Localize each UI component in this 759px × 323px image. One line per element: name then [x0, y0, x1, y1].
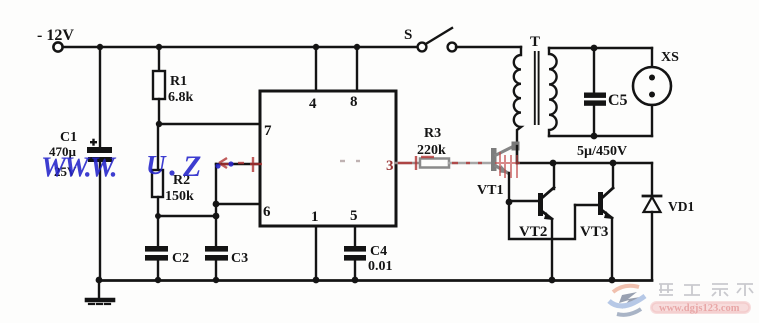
svg-text:XS: XS — [661, 50, 679, 65]
svg-text:3: 3 — [386, 158, 394, 174]
node junction C1/top — [97, 44, 103, 50]
wire top supply rail — [63, 46, 418, 48]
wire C1 lower — [99, 162, 101, 280]
node junction VT2 collector — [550, 160, 557, 167]
node junction C2/rail — [155, 277, 161, 283]
svg-text:VD1: VD1 — [668, 199, 694, 214]
wire base link down — [509, 202, 575, 239]
wire secondary bottom — [549, 135, 652, 137]
svg-text:5µ/450V: 5µ/450V — [577, 144, 627, 159]
svg-text:VT3: VT3 — [580, 224, 608, 240]
op-amp U1 timer IC body — [260, 91, 396, 226]
node junction pin1/rail — [313, 277, 320, 284]
wire C2 lower — [157, 260, 159, 280]
wire bottom ground rail — [99, 279, 652, 282]
svg-text:VT2: VT2 — [519, 224, 547, 240]
switch S — [418, 28, 457, 51]
resistor R3 — [420, 159, 449, 168]
transformer T core — [534, 52, 536, 124]
wire collector bus — [517, 162, 652, 164]
wire R3 to VT1 base — [449, 162, 491, 164]
node junction C1/rail — [96, 277, 103, 284]
node junction VT3 emitter/rail — [609, 277, 616, 284]
wire secondary top — [549, 47, 652, 49]
svg-text:C3: C3 — [231, 251, 248, 266]
svg-text:7: 7 — [264, 123, 272, 139]
pin 5 wire — [354, 226, 356, 246]
power terminal -12V — [53, 42, 62, 51]
node junction C5 top — [591, 45, 598, 52]
svg-text:VT1: VT1 — [477, 183, 503, 198]
node junction R1/top — [156, 44, 162, 50]
svg-text:C5: C5 — [608, 92, 628, 109]
capacitor C2 — [145, 246, 168, 261]
wire pin7 — [159, 123, 260, 125]
node junction pin2 net lower — [213, 213, 220, 220]
node junction C4/rail — [352, 277, 359, 284]
transformer T primary winding — [514, 47, 521, 163]
node junction pin8/top — [354, 44, 360, 50]
svg-text:T: T — [530, 34, 540, 50]
node junction R2/wire — [155, 213, 161, 219]
capacitor C1 — [87, 139, 112, 162]
wire VT1 collector to transformer — [516, 146, 518, 163]
svg-text:C1: C1 — [60, 130, 77, 145]
wire pin2 vertical net — [215, 164, 217, 246]
svg-text:Z: Z — [182, 150, 201, 183]
watermark url bar — [650, 301, 751, 314]
node junction R1/R2/pin7 — [156, 121, 162, 127]
resistor R2 — [152, 124, 163, 246]
svg-text:0.01: 0.01 — [368, 259, 393, 274]
wire VT1 emitter to VT2 base — [509, 200, 538, 202]
watermark logo bottom right — [609, 286, 645, 315]
svg-text:www.dgjs123.com: www.dgjs123.com — [659, 303, 740, 314]
svg-text:C4: C4 — [370, 244, 387, 259]
node junction VT2 emitter/rail — [549, 277, 556, 284]
wire pin2 horizontal — [216, 163, 260, 165]
svg-text:WW.W.: WW.W. — [41, 153, 117, 184]
svg-text:- 12V: - 12V — [37, 27, 74, 44]
node junction VT1 emitter/VT2 base — [506, 199, 513, 206]
node junction pin6 net — [213, 201, 220, 208]
svg-text:C2: C2 — [172, 251, 189, 266]
transistor Q2 VT2 — [538, 163, 554, 280]
watermark blue text left — [41, 150, 234, 184]
svg-text:220k: 220k — [417, 143, 446, 158]
svg-text:6: 6 — [263, 204, 271, 220]
pin 8 wire — [356, 47, 358, 91]
pin 4 wire — [315, 47, 317, 91]
wire VT1 emitter down — [508, 173, 510, 202]
diode VD1 — [643, 163, 661, 280]
node junction C5 bottom — [591, 133, 598, 140]
wire R2 to pin2 net — [158, 215, 216, 217]
svg-text:1: 1 — [311, 209, 319, 225]
node junction C3/rail — [213, 277, 219, 283]
svg-text:150k: 150k — [165, 189, 194, 204]
svg-text:S: S — [404, 27, 412, 43]
ground — [87, 280, 113, 304]
wire VT3 base — [575, 204, 598, 206]
svg-text:R1: R1 — [170, 74, 187, 89]
transistor Q1 VT1 — [491, 142, 520, 174]
watermark red dashes — [219, 152, 520, 178]
svg-text:R3: R3 — [424, 126, 441, 141]
node junction pin4/top — [313, 44, 319, 50]
capacitor C5 — [584, 48, 606, 136]
svg-text:U: U — [146, 150, 167, 180]
svg-text:4: 4 — [309, 96, 317, 112]
wire C1 upper — [99, 47, 101, 148]
svg-text:8: 8 — [350, 94, 358, 110]
resistor R1 — [153, 47, 165, 124]
capacitor C4 — [344, 246, 366, 261]
wire C3 lower — [215, 260, 217, 280]
wire switch to transformer — [456, 46, 521, 48]
transistor Q3 VT3 — [598, 163, 613, 280]
wire C4 lower — [354, 260, 356, 280]
svg-text:5: 5 — [350, 208, 358, 224]
svg-text:6.8k: 6.8k — [168, 90, 194, 105]
watermark text dian gong tian xia — [659, 284, 753, 296]
wire pin6 horizontal — [216, 203, 260, 205]
socket XS — [633, 48, 671, 136]
wire pin3 to R3 — [396, 162, 420, 164]
pin 1 wire — [315, 226, 317, 280]
capacitor C3 — [205, 246, 228, 261]
node junction VT3 collector — [610, 160, 617, 167]
transformer T secondary winding — [549, 48, 557, 136]
